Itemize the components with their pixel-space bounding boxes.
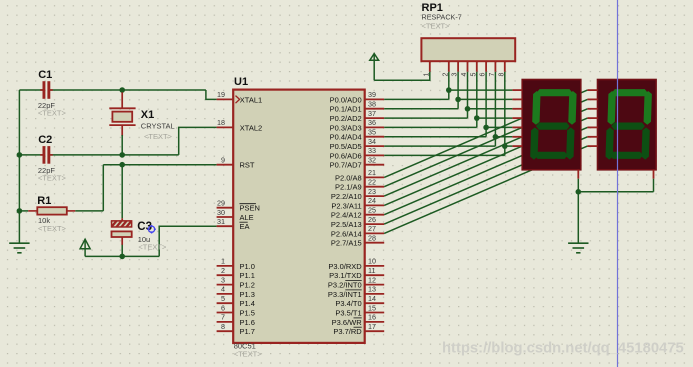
svg-text:P2.6/A14: P2.6/A14 [331,229,362,238]
wire P2.4 diagonal to DISP2 pin 5 [384,127,587,214]
svg-text:39: 39 [368,90,376,99]
svg-text:12: 12 [368,275,376,284]
svg-text:P1.4: P1.4 [240,299,255,308]
pin P0.5/AD5 34 [330,137,385,151]
svg-text:P1.7: P1.7 [240,327,255,336]
pin P1.7 8 [217,322,255,336]
wire C1 to XTAL1 net (top rail) [19,90,216,99]
label U1 [234,76,248,88]
svg-text:PSEN: PSEN [240,204,260,213]
svg-text:29: 29 [217,199,225,208]
svg-text:P1.6: P1.6 [240,318,255,327]
pin P3.4/T0 14 [335,294,384,308]
pin DISP2 common stub [653,170,655,179]
svg-text:15: 15 [368,303,376,312]
value C2 22pF [38,166,56,175]
svg-text:P1.1: P1.1 [240,271,255,280]
pin XTAL1 19 [217,90,263,104]
pin P1.2 3 [217,275,255,289]
pin P3.5/T1 15 [335,303,384,317]
svg-text:P3.3/INT1: P3.3/INT1 [328,290,362,299]
svg-text:9: 9 [221,156,225,165]
svg-text:6: 6 [221,303,225,312]
node C3 bottom junction [119,254,125,260]
sheet border blue line [617,0,619,367]
svg-text:P0.7/AD7: P0.7/AD7 [330,161,362,170]
svg-text:CRYSTAL: CRYSTAL [141,122,175,131]
svg-text:P3.6/WR: P3.6/WR [332,318,363,327]
svg-text:2: 2 [221,266,225,275]
pin PSEN 29 [217,199,260,213]
node R1 left junction [17,208,23,214]
svg-text:18: 18 [217,118,225,127]
pin DISP1 seg 4 stub [512,117,522,119]
pin RP1 2 [442,61,449,76]
svg-text:23: 23 [368,187,376,196]
svg-text:27: 27 [368,224,376,233]
svg-text:P0.6/AD6: P0.6/AD6 [330,151,362,160]
svg-text:<TEXT>: <TEXT> [144,132,173,141]
svg-text:<TEXT>: <TEXT> [234,350,263,359]
capacitor C2 [40,147,53,163]
pin P1.0 1 [217,257,255,271]
pin DISP2 seg 4 stub [587,117,597,119]
text C2 <TEXT> [38,174,67,183]
pin RP1 3 [452,61,459,76]
pin RP1 4 [461,61,468,76]
svg-text:P1.3: P1.3 [240,290,255,299]
pin DISP1 seg 6 stub [512,136,522,138]
pin DISP2 seg 3 stub [587,108,597,110]
svg-text:P2.3/A11: P2.3/A11 [331,201,361,210]
svg-text:5: 5 [221,294,225,303]
svg-text:EA: EA [240,222,250,231]
label X1 [141,109,154,121]
svg-text:1: 1 [221,257,225,266]
wire R1 left lead [19,210,28,212]
pin RST 9 [217,156,255,170]
pin P2.6/A14 27 [331,224,384,238]
crystal X1 [109,92,135,155]
pin P1.6 7 [217,313,255,327]
wire P0.4/RP1-6 to display pin 5 [384,72,512,137]
wire commons join [578,179,653,192]
svg-text:RST: RST [240,161,255,170]
pin P2.7/A15 28 [331,234,384,248]
wire DISP1 common down [577,179,579,192]
wire P2.2 diagonal to DISP2 pin 3 [384,109,587,196]
pin DISP1 seg 3 stub [512,108,522,110]
clock marker XTAL1 [236,96,240,104]
wire XTAL2 route [179,127,217,154]
resistor R1 [28,207,75,214]
wire VCC to RP1 pin1 [374,72,430,81]
pin ALE 30 [217,208,254,222]
svg-text:C2: C2 [38,134,52,146]
pin DISP2 seg 5 stub [587,126,597,128]
svg-text:10: 10 [368,257,376,266]
node RST/C3 junction [119,162,125,168]
pin P3.6/WR 16 [332,313,385,327]
pin RP1 1 (common) [423,61,430,76]
pin P2.4/A12 25 [331,206,384,220]
node P0.6 pullup junction [502,143,508,149]
pin P0.7/AD7 32 [330,156,385,170]
pin XTAL2 18 [217,118,263,132]
marker C3 origin [147,225,156,234]
label C3 [137,221,152,233]
svg-text:<TEXT>: <TEXT> [38,174,67,183]
svg-text:28: 28 [368,234,376,243]
pin DISP2 seg 2 stub [587,98,597,100]
label R1 [37,195,51,207]
wire C3 bottom lead [121,244,123,257]
pin P2.2/A10 23 [331,187,384,201]
pin P0.2/AD2 37 [330,109,385,123]
wire P2.3 diagonal to DISP2 pin 4 [384,118,587,205]
svg-text:U1: U1 [234,76,248,88]
svg-text:14: 14 [368,294,376,303]
text R1 <TEXT> [38,224,67,233]
pin DISP2 seg 6 stub [587,136,597,138]
pin DISP2 seg 7 stub [587,145,597,147]
label RP1 [422,2,443,14]
wire P0.2/RP1-4 to display pin 3 [384,72,512,118]
svg-text:XTAL2: XTAL2 [240,123,262,132]
text U1 <TEXT> [234,350,263,359]
svg-text:P0.5/AD5: P0.5/AD5 [330,142,362,151]
svg-text:P3.5/T1: P3.5/T1 [335,308,361,317]
pin P2.5/A13 26 [331,215,384,229]
value C1 22pF [38,101,56,110]
svg-text:11: 11 [368,266,375,275]
wire RST to R1 [102,165,104,211]
node P0.4 pullup junction [483,125,489,131]
svg-text:P2.4/A12: P2.4/A12 [331,211,362,220]
svg-text:P1.5: P1.5 [240,308,255,317]
svg-text:<TEXT>: <TEXT> [422,21,451,30]
ground displays [568,243,588,253]
pin P0.3/AD3 36 [330,118,385,132]
pin DISP2 seg 1 stub [587,89,597,91]
wire P2.0 diagonal to DISP2 pin 1 [384,90,587,177]
pin DISP1 seg 7 stub [512,145,522,147]
svg-text:33: 33 [368,146,376,155]
value R1 10k [38,216,50,225]
pin RP1 7 [489,61,496,76]
ground left rail [9,243,29,253]
pin P3.3/INT1 13 [328,285,384,299]
node C2 left junction [17,152,23,158]
node display common junction [576,189,582,195]
svg-text:P3.4/T0: P3.4/T0 [335,299,361,308]
svg-text:36: 36 [368,118,376,127]
pin P0.1/AD1 38 [330,100,385,114]
svg-text:R1: R1 [37,195,51,207]
pin P2.0/A8 21 [335,168,384,182]
svg-text:P1.2: P1.2 [240,281,255,290]
wire P2.1 diagonal to DISP2 pin 2 [384,99,587,186]
svg-text:35: 35 [368,128,376,137]
pin RP1 6 [480,61,487,76]
svg-text:3: 3 [221,275,225,284]
pin P0.4/AD4 35 [330,128,385,142]
pin RP1 8 [498,61,505,76]
svg-text:RESPACK-7: RESPACK-7 [422,12,462,21]
pin P1.5 6 [217,303,255,317]
svg-text:P3.0/RXD: P3.0/RXD [328,262,362,271]
node P0.0 pullup junction [446,87,452,93]
label C1 [38,69,52,81]
svg-text:P3.7/RD: P3.7/RD [333,327,362,336]
svg-text:<TEXT>: <TEXT> [38,224,67,233]
capacitor C1 [40,82,53,98]
display DISP1 7-segment [522,80,581,170]
svg-text:P2.5/A13: P2.5/A13 [331,220,362,229]
pin P3.0/RXD 10 [328,257,384,271]
svg-text:17: 17 [368,322,376,331]
pin P0.0/AD0 39 [330,90,385,104]
svg-text:19: 19 [217,90,225,99]
resistor-pack RP1 body [421,38,515,61]
svg-text:38: 38 [368,100,376,109]
svg-text:8: 8 [221,322,225,331]
svg-text:32: 32 [368,156,376,165]
node A (C1/X1/XTAL1 junction) [119,87,125,93]
svg-text:P2.2/A10: P2.2/A10 [331,192,362,201]
text C1 <TEXT> [38,109,67,118]
value RP1 RESPACK-7 [422,12,462,21]
pin P0.6/AD6 33 [330,146,385,160]
power VCC arrow left [80,239,90,256]
svg-text:31: 31 [217,217,225,226]
label C2 [38,134,52,146]
pin P2.3/A11 24 [331,196,384,210]
wire RST row [103,164,216,166]
node P0.1 pullup junction [455,97,461,103]
text C3 <TEXT> [138,243,167,252]
svg-text:C1: C1 [38,69,52,81]
svg-text:30: 30 [217,208,225,217]
text RP1 <TEXT> [422,21,451,30]
node P0.2 pullup junction [465,106,471,112]
wire P0.3/RP1-5 to display pin 4 [384,72,512,128]
svg-text:P2.1/A9: P2.1/A9 [335,183,362,192]
pin P1.1 2 [217,266,255,280]
svg-text:X1: X1 [141,109,154,121]
value X1 CRYSTAL [141,122,175,131]
value U1 80C51 [234,342,256,351]
svg-text:24: 24 [368,196,376,205]
svg-text:ALE: ALE [240,213,254,222]
pin DISP1 seg 1 stub [512,89,522,91]
svg-text:P3.1/TXD: P3.1/TXD [329,271,362,280]
svg-text:16: 16 [368,313,376,322]
ic U1 body [233,90,365,343]
pin P3.2/INT0 12 [328,275,384,289]
wire P0.0/RP1-2 to display pin 1 [384,72,512,100]
pin P1.4 5 [217,294,255,308]
pin DISP1 common stub [577,170,579,179]
wire C3 top lead [121,165,123,219]
wire common to ground [577,192,579,243]
display DISP2 7-segment [598,80,657,170]
svg-text:22: 22 [368,178,376,187]
wire P2.6 diagonal to DISP2 pin 7 [384,146,587,233]
wire VCC/EA row [85,255,159,257]
wire C2 row [19,154,178,156]
wire P0.1/RP1-3 to display pin 2 [384,72,512,109]
pin RP1 5 [470,61,477,76]
pin P3.1/TXD 11 [329,266,384,280]
wire left rail [18,90,20,243]
svg-text:P3.2/INT0: P3.2/INT0 [328,281,362,290]
wire R1 right lead [75,210,103,212]
svg-text:P2.0/A8: P2.0/A8 [335,173,362,182]
svg-text:P0.4/AD4: P0.4/AD4 [330,133,362,142]
svg-text:P0.1/AD1: P0.1/AD1 [330,105,362,114]
svg-text:P0.0/AD0: P0.0/AD0 [330,95,362,104]
svg-text:13: 13 [368,285,376,294]
pin P2.1/A9 22 [335,178,384,192]
svg-text:P1.0: P1.0 [240,262,255,271]
capacitor C3 [109,218,135,245]
pin P1.3 4 [217,285,255,299]
svg-text:4: 4 [221,285,225,294]
svg-text:21: 21 [368,168,376,177]
svg-text:XTAL1: XTAL1 [240,95,262,104]
wire EA route [159,226,216,256]
svg-text:7: 7 [221,313,225,322]
svg-text:37: 37 [368,109,376,118]
svg-text:<TEXT>: <TEXT> [138,243,167,252]
pin P3.7/RD 17 [333,322,384,336]
power VCC arrow right [370,54,379,81]
node P0.3 pullup junction [474,115,480,121]
svg-text:P0.3/AD3: P0.3/AD3 [330,123,362,132]
svg-text:P0.2/AD2: P0.2/AD2 [330,114,362,123]
watermark [442,341,684,357]
svg-text:25: 25 [368,206,376,215]
svg-text:<TEXT>: <TEXT> [38,109,67,118]
wire P0.6/RP1-8 to display pin 7 [384,72,512,156]
text X1 <TEXT> [144,132,173,141]
pin DISP1 seg 2 stub [512,98,522,100]
svg-text:34: 34 [368,137,376,146]
svg-text:26: 26 [368,215,376,224]
wire P0.5/RP1-7 to display pin 6 [384,72,512,146]
value C3 10u [138,235,151,244]
node X1 bottom junction [119,152,125,158]
svg-text:https://blog.csdn.net/qq_45180: https://blog.csdn.net/qq_45180475 [442,341,684,357]
pin EA 31 [217,217,250,231]
svg-text:P2.7/A15: P2.7/A15 [331,239,362,248]
pin DISP1 seg 5 stub [512,126,522,128]
node P0.5 pullup junction [493,134,499,140]
wire P2.5 diagonal to DISP2 pin 6 [384,137,587,224]
